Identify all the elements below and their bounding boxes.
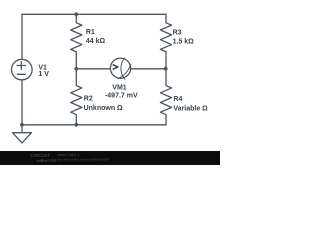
svg-text:1 V: 1 V [38, 71, 49, 78]
svg-text:1.5 kΩ: 1.5 kΩ [173, 39, 195, 46]
svg-text:sahail / Lab2_3: sahail / Lab2_3 [57, 153, 80, 157]
svg-text:▬◆▬LAB: ▬◆▬LAB [37, 157, 57, 162]
svg-text:Variable Ω: Variable Ω [173, 105, 208, 112]
voltage source V1 circle [11, 59, 32, 80]
wire middle right (VM1 to R3/R4 node) [131, 68, 166, 70]
svg-text:Unknown Ω: Unknown Ω [84, 105, 123, 112]
wire left vertical V1 bottom lead [21, 80, 23, 125]
svg-text:44 kΩ: 44 kΩ [86, 38, 106, 45]
resistor R1 [71, 14, 82, 69]
svg-text:http://circuitlab.com/c6t87652: http://circuitlab.com/c6t87652g5306 [57, 158, 109, 162]
wire top net (V1+ to R1 top to R3 top) [22, 13, 166, 15]
node junction dot R1/R2 middle [74, 67, 78, 71]
svg-text:-497.7 mV: -497.7 mV [105, 93, 138, 100]
voltmeter VM1 circle [110, 58, 130, 78]
svg-text:R1: R1 [86, 29, 95, 36]
svg-text:R2: R2 [84, 95, 93, 102]
watermark bar [0, 151, 220, 165]
VM1 arrow glyph [113, 65, 118, 70]
svg-text:VM1: VM1 [112, 84, 127, 91]
svg-text:R4: R4 [173, 96, 182, 103]
V1 plus sign [17, 62, 26, 70]
VM1 meter arc 1 [121, 58, 125, 79]
resistor R3 [160, 14, 171, 69]
svg-text:R3: R3 [173, 29, 182, 36]
ground symbol [13, 125, 32, 143]
wire left vertical V1 top lead [21, 14, 23, 59]
node junction dot R3/R4 middle [164, 67, 168, 71]
wire middle left (R1/R2 node to VM1) [76, 68, 110, 70]
node junction dot ground [20, 123, 24, 127]
resistor R2 [71, 69, 82, 125]
node junction dot R2 bottom [74, 123, 78, 127]
wire bottom net (ground to R2 bottom to R4 bottom) [22, 124, 166, 126]
V1 minus sign [17, 73, 25, 75]
node junction dot R1 top [74, 12, 78, 16]
VM1 meter arc 2 [118, 65, 131, 79]
resistor R4 [160, 69, 171, 125]
CircuitLab logo [31, 153, 57, 163]
